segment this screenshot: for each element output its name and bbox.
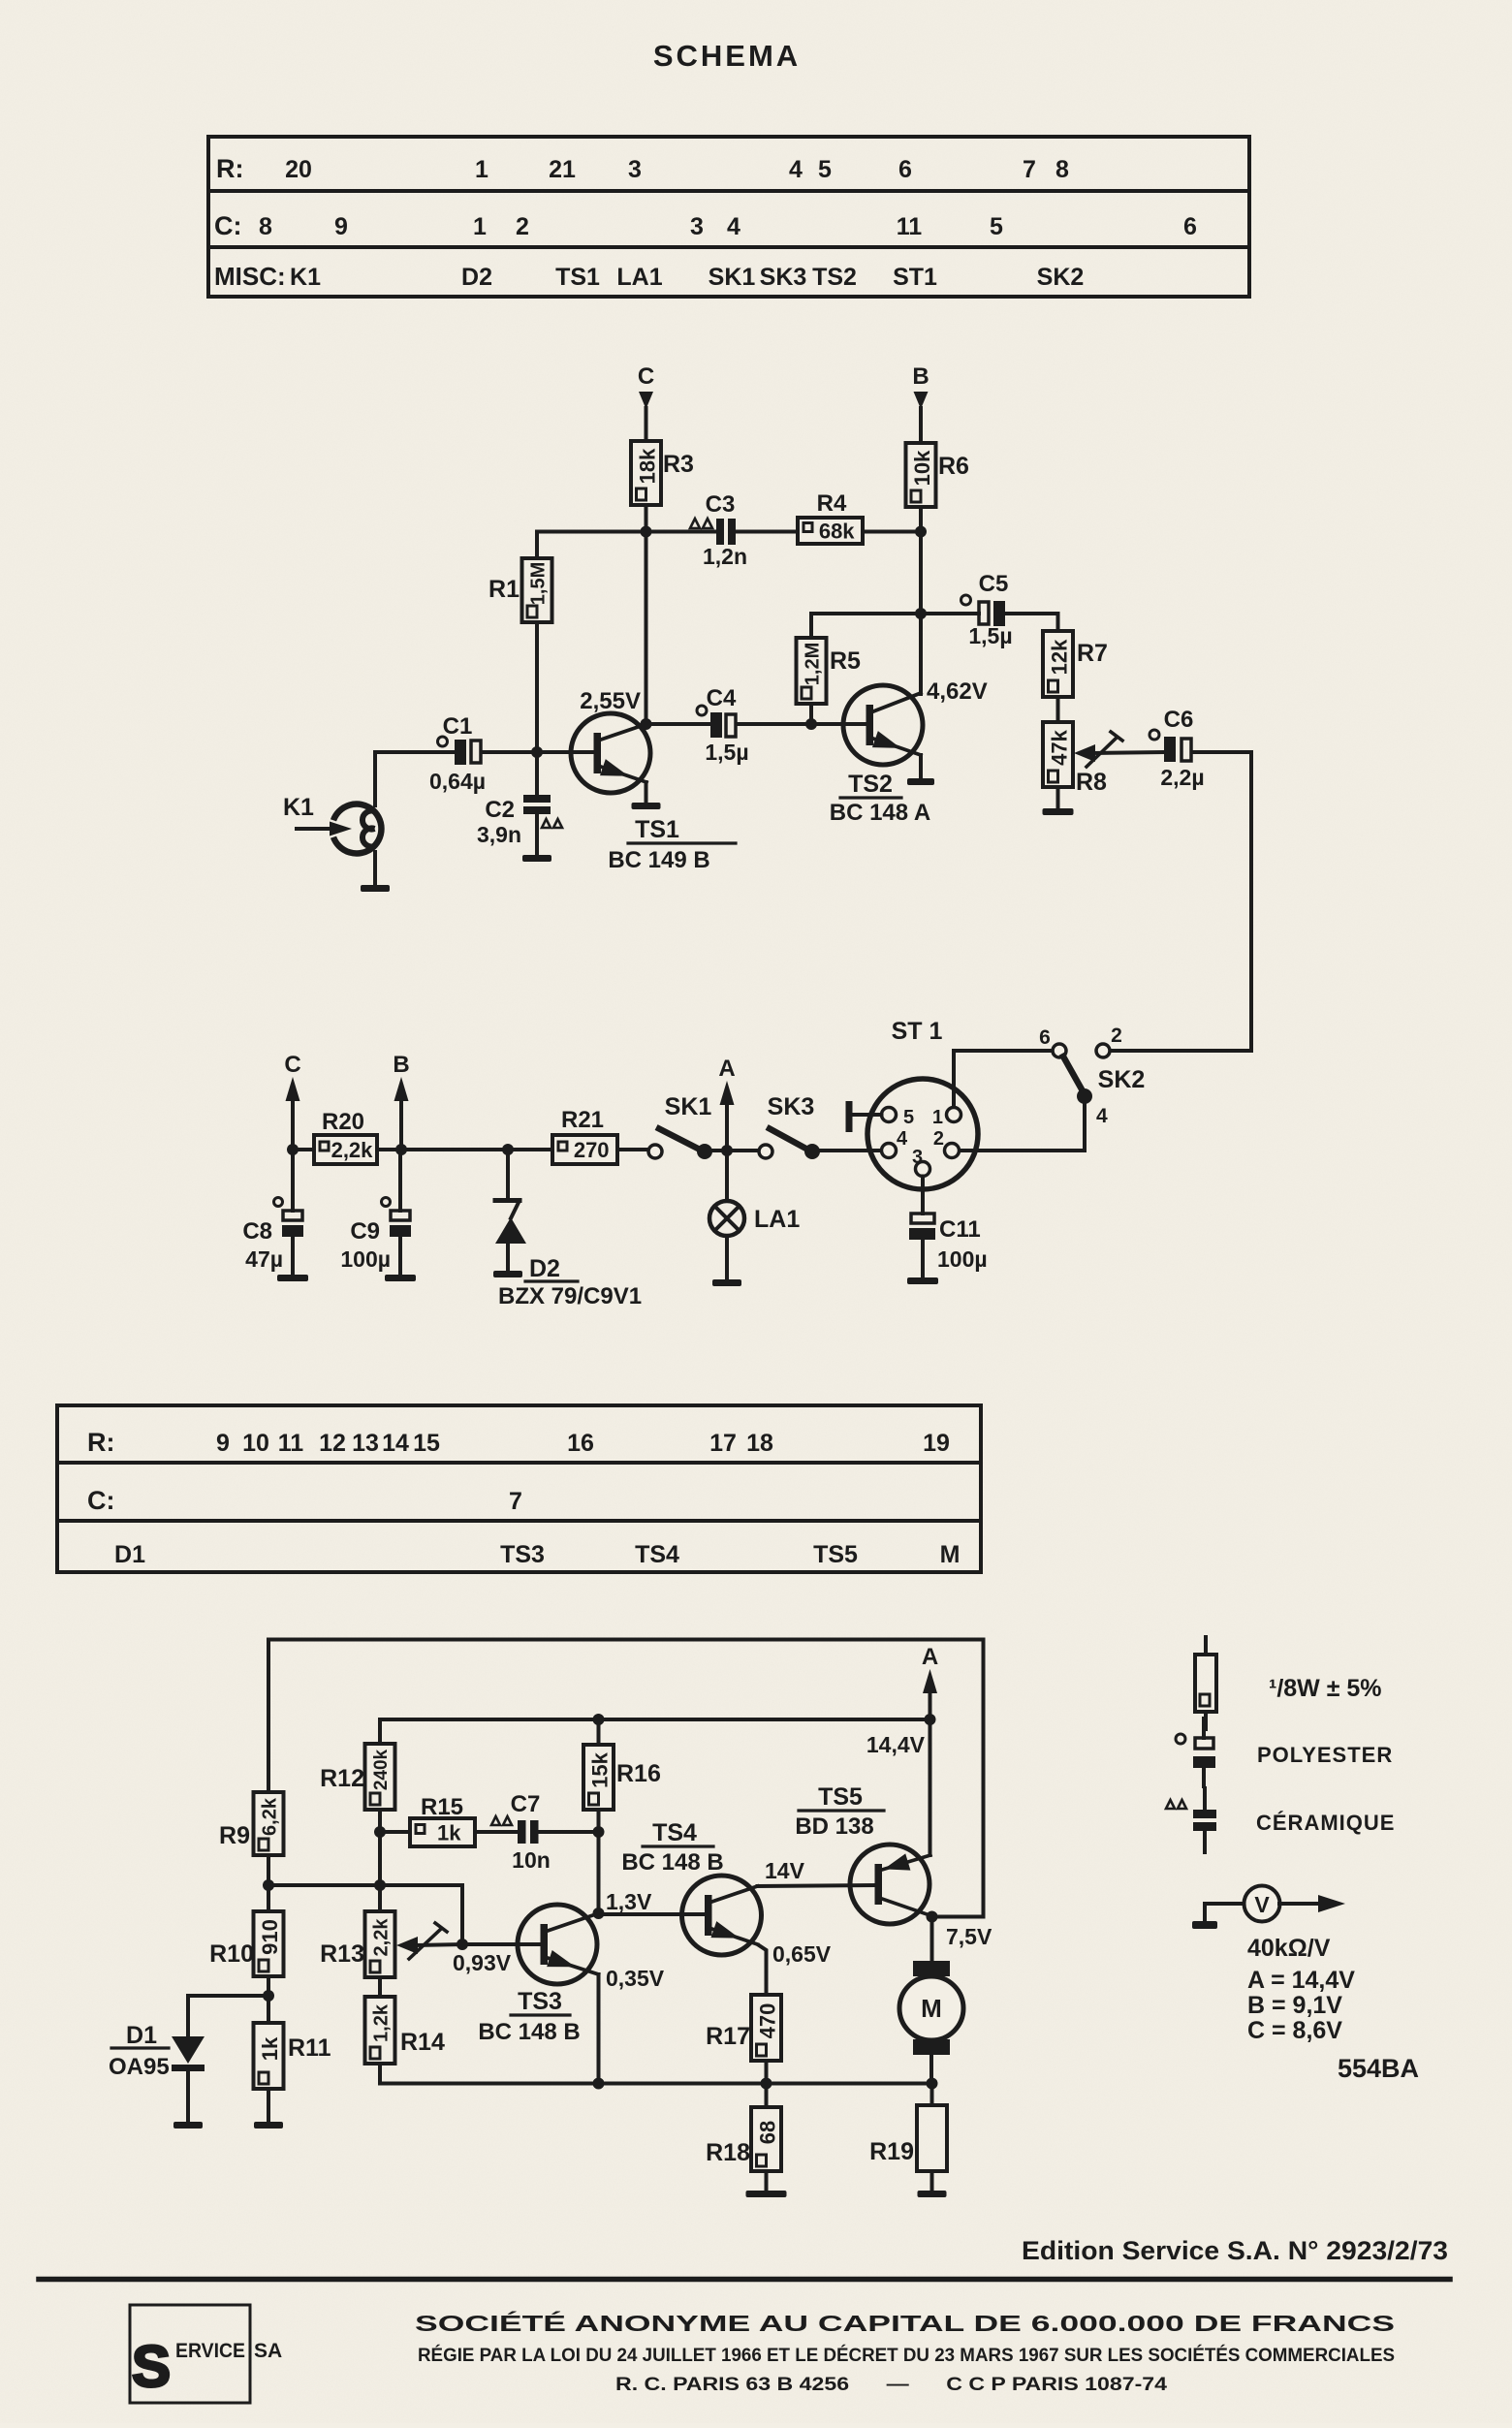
svg-text:15: 15	[413, 1430, 440, 1457]
svg-text:A: A	[718, 1056, 735, 1082]
svg-text:C4: C4	[707, 685, 737, 711]
svg-text:14,4V: 14,4V	[866, 1732, 926, 1757]
svg-text:554BA: 554BA	[1338, 2054, 1419, 2083]
svg-text:POLYESTER: POLYESTER	[1257, 1743, 1393, 1767]
svg-text:1,5M: 1,5M	[528, 562, 550, 605]
svg-text:11: 11	[278, 1430, 304, 1457]
svg-text:0,64µ: 0,64µ	[429, 769, 486, 794]
svg-text:1,2k: 1,2k	[371, 2003, 393, 2042]
svg-text:BZX 79/C9V1: BZX 79/C9V1	[498, 1283, 642, 1309]
svg-text:K1: K1	[283, 794, 314, 821]
svg-text:RÉGIE PAR LA LOI DU 24 JUILLET: RÉGIE PAR LA LOI DU 24 JUILLET 1966 ET L…	[418, 2345, 1395, 2366]
svg-text:5: 5	[818, 156, 832, 183]
svg-text:R1: R1	[488, 576, 520, 603]
svg-text:2: 2	[933, 1128, 944, 1150]
svg-text:¹/8W ± 5%: ¹/8W ± 5%	[1269, 1675, 1382, 1702]
svg-text:68k: 68k	[819, 520, 855, 544]
svg-text:MISC:: MISC:	[214, 262, 286, 291]
svg-text:TS4: TS4	[635, 1541, 679, 1568]
svg-text:12k: 12k	[1048, 639, 1072, 675]
svg-text:C2: C2	[485, 797, 515, 823]
svg-text:C8: C8	[242, 1218, 272, 1245]
svg-text:1,5µ: 1,5µ	[705, 740, 748, 765]
svg-text:R11: R11	[288, 2034, 331, 2062]
svg-text:4: 4	[727, 213, 740, 240]
svg-text:1k: 1k	[437, 1821, 461, 1845]
svg-text:R:: R:	[216, 154, 244, 183]
svg-text:R19: R19	[869, 2138, 914, 2165]
svg-text:C7: C7	[511, 1791, 541, 1817]
svg-text:ST 1: ST 1	[892, 1018, 943, 1045]
svg-text:TS2: TS2	[848, 771, 893, 798]
svg-text:270: 270	[574, 1138, 610, 1162]
svg-text:C9: C9	[350, 1218, 380, 1245]
svg-text:21: 21	[549, 156, 576, 183]
svg-text:1,5µ: 1,5µ	[968, 623, 1012, 648]
svg-text:40kΩ/V: 40kΩ/V	[1247, 1935, 1331, 1962]
svg-text:9: 9	[334, 213, 348, 240]
svg-text:SCHEMA: SCHEMA	[653, 39, 801, 73]
svg-text:0,93V: 0,93V	[453, 1950, 512, 1975]
svg-text:OA95: OA95	[109, 2054, 170, 2080]
svg-text:R6: R6	[938, 453, 969, 480]
svg-text:R21: R21	[561, 1107, 604, 1133]
svg-text:1,2M: 1,2M	[803, 643, 824, 685]
svg-text:19: 19	[923, 1430, 950, 1457]
svg-text:14: 14	[382, 1430, 409, 1457]
svg-text:4: 4	[897, 1128, 908, 1150]
svg-text:47µ: 47µ	[245, 1246, 283, 1272]
svg-text:D2: D2	[529, 1255, 560, 1282]
svg-text:R10: R10	[209, 1940, 254, 1968]
svg-text:6: 6	[898, 156, 912, 183]
svg-text:C11: C11	[939, 1216, 981, 1243]
svg-text:SK2: SK2	[1037, 264, 1085, 291]
svg-text:BC 148 B: BC 148 B	[478, 2019, 580, 2045]
svg-text:100µ: 100µ	[937, 1246, 988, 1272]
svg-text:3: 3	[690, 213, 704, 240]
svg-text:S: S	[132, 2334, 171, 2399]
svg-text:ERVICE: ERVICE	[175, 2340, 245, 2362]
svg-text:C6: C6	[1164, 707, 1194, 733]
svg-text:BC 148 B: BC 148 B	[621, 1849, 723, 1876]
svg-text:BC 149 B: BC 149 B	[608, 847, 709, 873]
svg-text:1,3V: 1,3V	[606, 1889, 652, 1914]
svg-text:R8: R8	[1076, 769, 1107, 796]
svg-text:0,65V: 0,65V	[772, 1941, 832, 1967]
svg-text:K1: K1	[290, 264, 321, 291]
svg-text:R5: R5	[830, 647, 861, 675]
svg-text:SK2: SK2	[1098, 1066, 1146, 1093]
svg-text:5: 5	[990, 213, 1003, 240]
svg-text:R9: R9	[219, 1822, 250, 1849]
svg-text:C3: C3	[706, 491, 736, 518]
svg-text:2: 2	[516, 213, 529, 240]
svg-text:C5: C5	[979, 571, 1009, 597]
svg-text:B: B	[912, 363, 929, 390]
svg-text:R3: R3	[663, 451, 694, 478]
svg-text:B: B	[393, 1052, 409, 1078]
svg-text:R13: R13	[320, 1940, 364, 1968]
svg-text:10k: 10k	[910, 450, 934, 486]
svg-text:14V: 14V	[765, 1858, 805, 1883]
svg-text:SK1: SK1	[665, 1093, 712, 1120]
svg-text:A: A	[922, 1644, 938, 1670]
svg-text:BD 138: BD 138	[795, 1813, 873, 1840]
svg-text:13: 13	[352, 1430, 379, 1457]
svg-text:R12: R12	[320, 1765, 364, 1792]
svg-text:470: 470	[756, 2003, 780, 2039]
svg-text:1: 1	[932, 1107, 943, 1128]
svg-text:TS2: TS2	[812, 264, 857, 291]
svg-text:240k: 240k	[371, 1749, 392, 1790]
svg-text:LA1: LA1	[754, 1206, 800, 1233]
svg-text:17: 17	[709, 1430, 737, 1457]
svg-text:Edition Service S.A. N° 2923/2: Edition Service S.A. N° 2923/2/73	[1022, 2236, 1448, 2265]
svg-text:D1: D1	[126, 2022, 157, 2049]
svg-text:TS5: TS5	[818, 1783, 863, 1811]
svg-text:1: 1	[475, 156, 488, 183]
svg-text:R20: R20	[322, 1109, 364, 1135]
svg-text:2,2µ: 2,2µ	[1160, 765, 1204, 790]
svg-text:3: 3	[912, 1147, 923, 1168]
svg-text:C = 8,6V: C = 8,6V	[1247, 2017, 1342, 2044]
svg-text:C:: C:	[214, 211, 242, 240]
svg-text:47k: 47k	[1048, 729, 1072, 765]
svg-text:4,62V: 4,62V	[927, 678, 988, 705]
svg-text:910: 910	[258, 1919, 282, 1955]
svg-text:6: 6	[1183, 213, 1197, 240]
svg-text:68: 68	[756, 2121, 780, 2144]
svg-text:3: 3	[628, 156, 642, 183]
svg-text:2,2k: 2,2k	[331, 1138, 374, 1162]
svg-text:9: 9	[216, 1430, 230, 1457]
svg-text:M: M	[940, 1541, 961, 1568]
svg-text:8: 8	[1055, 156, 1069, 183]
svg-text:7: 7	[1023, 156, 1036, 183]
svg-text:SK3: SK3	[760, 264, 807, 291]
svg-text:4: 4	[1096, 1105, 1108, 1127]
svg-text:TS1: TS1	[635, 816, 679, 843]
svg-text:C1: C1	[443, 713, 473, 740]
svg-text:2,55V: 2,55V	[580, 688, 641, 714]
svg-text:18k: 18k	[636, 448, 660, 484]
svg-text:18: 18	[746, 1430, 773, 1457]
svg-text:10: 10	[242, 1430, 269, 1457]
svg-text:V: V	[1254, 1892, 1270, 1917]
svg-text:R. C. PARIS 63 B 4256 —: R. C. PARIS 63 B 4256 — C C P PARIS 1087…	[615, 2375, 1168, 2395]
svg-text:0,35V: 0,35V	[606, 1966, 665, 1991]
svg-text:R18: R18	[706, 2139, 750, 2166]
svg-text:R16: R16	[616, 1760, 661, 1787]
svg-text:C:: C:	[87, 1486, 115, 1515]
svg-text:1,2n: 1,2n	[703, 544, 747, 569]
svg-text:TS4: TS4	[652, 1819, 697, 1846]
svg-text:SK3: SK3	[768, 1093, 815, 1120]
svg-text:15k: 15k	[588, 1751, 613, 1787]
svg-text:100µ: 100µ	[340, 1246, 391, 1272]
svg-text:R14: R14	[400, 2029, 445, 2056]
svg-text:D1: D1	[114, 1541, 145, 1568]
svg-text:11: 11	[897, 213, 923, 240]
svg-text:R7: R7	[1077, 640, 1108, 667]
svg-text:TS3: TS3	[518, 1988, 562, 2015]
svg-text:6: 6	[1039, 1026, 1051, 1049]
svg-text:M: M	[921, 1994, 942, 2023]
svg-text:R4: R4	[817, 490, 847, 517]
svg-text:1k: 1k	[258, 2036, 282, 2061]
svg-text:7,5V: 7,5V	[946, 1924, 992, 1949]
svg-text:CÉRAMIQUE: CÉRAMIQUE	[1256, 1811, 1395, 1835]
svg-text:20: 20	[285, 156, 312, 183]
svg-text:SA: SA	[254, 2340, 282, 2362]
svg-text:10n: 10n	[512, 1847, 551, 1873]
svg-text:TS1: TS1	[555, 264, 600, 291]
svg-text:8: 8	[259, 213, 272, 240]
svg-text:D2: D2	[461, 264, 492, 291]
svg-text:1: 1	[473, 213, 487, 240]
svg-text:6,2k: 6,2k	[260, 1797, 281, 1836]
svg-text:12: 12	[319, 1430, 346, 1457]
svg-text:R:: R:	[87, 1428, 115, 1457]
svg-text:4: 4	[789, 156, 803, 183]
svg-text:ST1: ST1	[893, 264, 937, 291]
svg-text:SK1: SK1	[709, 264, 756, 291]
svg-text:SOCIÉTÉ ANONYME AU CAPITAL DE: SOCIÉTÉ ANONYME AU CAPITAL DE 6.000.000 …	[415, 2310, 1395, 2336]
svg-text:C: C	[638, 363, 654, 390]
svg-text:7: 7	[509, 1488, 522, 1515]
svg-text:LA1: LA1	[616, 264, 662, 291]
svg-text:C: C	[284, 1052, 300, 1078]
svg-text:B = 9,1V: B = 9,1V	[1247, 1992, 1342, 2019]
svg-text:TS5: TS5	[813, 1541, 858, 1568]
svg-text:2,2k: 2,2k	[371, 1918, 393, 1957]
svg-text:2: 2	[1111, 1025, 1122, 1047]
svg-text:BC 148 A: BC 148 A	[830, 800, 930, 826]
svg-text:16: 16	[567, 1430, 594, 1457]
svg-text:A = 14,4V: A = 14,4V	[1247, 1967, 1355, 1994]
svg-text:R15: R15	[421, 1794, 463, 1820]
svg-text:R17: R17	[706, 2023, 750, 2050]
svg-text:3,9n: 3,9n	[477, 822, 521, 847]
svg-text:TS3: TS3	[500, 1541, 545, 1568]
svg-text:5: 5	[903, 1107, 914, 1128]
